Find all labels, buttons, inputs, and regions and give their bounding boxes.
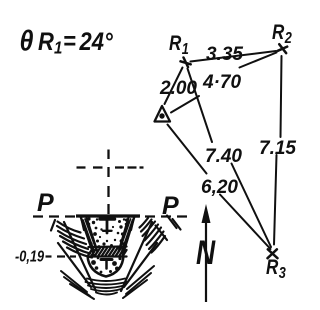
svg-text:R: R (266, 256, 278, 279)
svg-text:2: 2 (284, 30, 292, 48)
svg-text:R: R (38, 29, 54, 57)
svg-text:7.40: 7.40 (205, 146, 242, 167)
svg-text:3: 3 (279, 265, 286, 283)
svg-text:7.15: 7.15 (259, 138, 296, 159)
svg-text:R: R (169, 32, 181, 55)
svg-text:P: P (37, 189, 54, 217)
svg-text:-0,19: -0,19 (15, 248, 44, 266)
svg-text:4·70: 4·70 (202, 72, 241, 93)
svg-text:θ: θ (20, 25, 34, 57)
svg-text:1: 1 (182, 41, 189, 59)
svg-text:3.35: 3.35 (206, 44, 243, 65)
svg-text:6,20: 6,20 (201, 177, 238, 198)
svg-text:N: N (196, 234, 216, 272)
svg-text:=: = (63, 28, 76, 56)
svg-text:R: R (272, 21, 284, 44)
svg-text:2.00: 2.00 (159, 78, 197, 99)
svg-text:1: 1 (54, 39, 62, 58)
svg-text:24°: 24° (79, 29, 114, 57)
